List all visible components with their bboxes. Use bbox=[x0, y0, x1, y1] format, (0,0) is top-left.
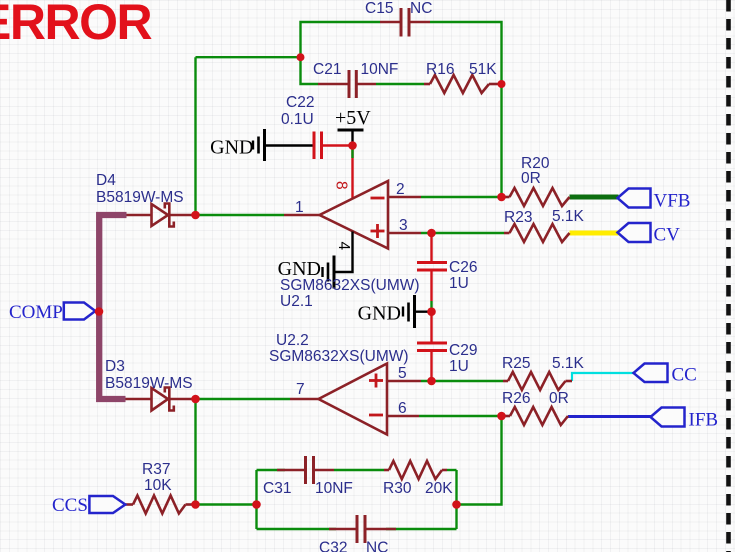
svg-text:0R: 0R bbox=[521, 170, 541, 187]
wire pin3 to R23 bbox=[421, 232, 504, 234]
port CV bbox=[618, 223, 651, 242]
capacitor C29 plates bbox=[417, 343, 447, 351]
port IFB bbox=[651, 408, 685, 427]
diode D3 bbox=[152, 388, 196, 411]
op-amp U2.1 minus mark bbox=[371, 197, 385, 200]
resistor R20 bbox=[502, 188, 570, 206]
svg-text:B5819W-MS: B5819W-MS bbox=[96, 189, 184, 206]
ground G3 mid bbox=[403, 295, 432, 328]
diode D4 anode lead bbox=[127, 214, 152, 217]
capacitor C22 bbox=[284, 132, 353, 160]
wire IFB blue bbox=[568, 415, 651, 418]
capacitor C26 plates bbox=[417, 263, 447, 271]
op-amp U2.2 minus mark bbox=[369, 414, 383, 417]
wire VFB thick green bbox=[570, 195, 619, 200]
svg-text:5: 5 bbox=[398, 365, 407, 382]
op-amp U2.1 pin4 ground lead bbox=[335, 232, 353, 273]
svg-text:CCS: CCS bbox=[52, 495, 88, 516]
diode D3 anode lead bbox=[126, 398, 152, 401]
wire D4 to op-amp pin1 bbox=[196, 214, 285, 216]
svg-text:1U: 1U bbox=[449, 275, 469, 292]
svg-text:5.1K: 5.1K bbox=[552, 208, 585, 225]
port CCS bbox=[89, 496, 125, 513]
wire pin5 row green bbox=[421, 380, 503, 382]
wire C21 row green bbox=[301, 57, 425, 84]
svg-text:3: 3 bbox=[399, 217, 408, 234]
svg-text:4: 4 bbox=[335, 242, 352, 251]
capacitor C29 leads red bbox=[430, 308, 432, 382]
svg-text:C26: C26 bbox=[449, 259, 477, 276]
svg-text:SGM8632XS(UMW): SGM8632XS(UMW) bbox=[280, 277, 420, 294]
resistor R30 bbox=[384, 461, 447, 479]
wire node A left branch bbox=[196, 56, 301, 58]
svg-text:IFB: IFB bbox=[689, 410, 719, 431]
svg-text:C29: C29 bbox=[449, 342, 477, 359]
resistor R26 bbox=[502, 407, 569, 425]
resistor R16 bbox=[424, 75, 502, 93]
svg-text:20K: 20K bbox=[425, 480, 453, 497]
ground G1 at C22 bbox=[253, 129, 284, 161]
svg-text:COMP: COMP bbox=[9, 302, 63, 323]
wire pin2 to node bbox=[421, 196, 502, 198]
port CC bbox=[634, 364, 668, 383]
svg-text:R23: R23 bbox=[504, 209, 532, 226]
svg-text:B5819W-MS: B5819W-MS bbox=[105, 375, 193, 392]
wire left vertical to D4 bbox=[194, 57, 196, 215]
svg-text:D4: D4 bbox=[96, 172, 116, 189]
svg-text:7: 7 bbox=[296, 381, 305, 398]
svg-text:51K: 51K bbox=[469, 61, 497, 78]
svg-text:U2.2: U2.2 bbox=[276, 332, 309, 349]
svg-text:CC: CC bbox=[672, 365, 697, 386]
resistor R23 bbox=[504, 224, 570, 242]
capacitor C15 bbox=[380, 8, 430, 37]
svg-text:VFB: VFB bbox=[654, 191, 691, 212]
diode D4 bbox=[152, 204, 196, 227]
wire pin8 supply red vertical bbox=[351, 146, 353, 199]
svg-text:U2.1: U2.1 bbox=[280, 293, 313, 310]
wire C31 loop right vertical bbox=[455, 470, 457, 529]
sheet border dashed bbox=[726, 0, 731, 552]
capacitor C32 bbox=[329, 515, 396, 543]
svg-text:SGM8632XS(UMW): SGM8632XS(UMW) bbox=[269, 348, 409, 365]
svg-text:10NF: 10NF bbox=[361, 61, 399, 78]
wire D3 to op-amp pin7 bbox=[196, 398, 291, 400]
op-amp U2.1 plus mark bbox=[371, 224, 385, 238]
wire C15 top loop green bbox=[301, 22, 502, 197]
wire CC cyan bbox=[572, 373, 634, 381]
wire C26 C29 node green stub bbox=[430, 301, 432, 308]
svg-text:10K: 10K bbox=[144, 477, 172, 494]
svg-text:8: 8 bbox=[333, 181, 350, 190]
svg-text:NC: NC bbox=[366, 540, 388, 552]
svg-text:C21: C21 bbox=[313, 61, 341, 78]
svg-text:R25: R25 bbox=[502, 355, 530, 372]
wire R37 node to C31 loop bbox=[196, 503, 257, 505]
svg-text:+5V: +5V bbox=[335, 107, 371, 129]
op-amp U2.2 plus mark bbox=[369, 374, 383, 388]
svg-text:R16: R16 bbox=[426, 61, 454, 78]
svg-text:5.1K: 5.1K bbox=[552, 355, 585, 372]
svg-text:C31: C31 bbox=[263, 480, 291, 497]
resistor R37 bbox=[126, 496, 196, 514]
svg-text:1: 1 bbox=[295, 199, 304, 216]
svg-text:0.1U: 0.1U bbox=[281, 111, 314, 128]
svg-text:10NF: 10NF bbox=[315, 480, 353, 497]
wire pin6 row green bbox=[419, 415, 502, 417]
svg-text:CV: CV bbox=[654, 225, 681, 246]
svg-text:2: 2 bbox=[396, 181, 405, 198]
svg-text:C22: C22 bbox=[286, 94, 314, 111]
svg-text:6: 6 bbox=[398, 400, 407, 417]
svg-text:D3: D3 bbox=[105, 358, 125, 375]
wire D3 node down to R37 node bbox=[194, 399, 196, 505]
power +5V bar bbox=[338, 130, 364, 142]
port COMP bbox=[64, 303, 96, 320]
capacitor C26 leads red bbox=[430, 233, 432, 301]
wire COMP thick plum bus bbox=[99, 215, 126, 399]
wire C31 upper branch green bbox=[257, 469, 457, 471]
capacitor C31 bbox=[277, 456, 334, 484]
svg-text:R30: R30 bbox=[383, 480, 412, 497]
svg-text:R26: R26 bbox=[502, 390, 530, 407]
svg-text:C32: C32 bbox=[319, 540, 347, 552]
wire +5V node green stub bbox=[351, 150, 353, 159]
svg-text:GND: GND bbox=[358, 303, 401, 325]
wire pin6 node down to C31 loop bbox=[457, 416, 502, 505]
svg-text:C15: C15 bbox=[365, 0, 393, 17]
svg-text:NC: NC bbox=[410, 0, 432, 17]
port VFB bbox=[618, 189, 651, 208]
resistor R25 bbox=[503, 372, 572, 390]
ground G2 at pin4 bbox=[323, 256, 335, 289]
svg-text:1U: 1U bbox=[449, 358, 469, 375]
svg-text:GND: GND bbox=[210, 137, 253, 159]
op-amp U2.2 bbox=[290, 364, 421, 435]
svg-text:0R: 0R bbox=[549, 390, 569, 407]
wire C32 lower branch green bbox=[257, 528, 457, 530]
wire CV yellow bbox=[570, 231, 619, 236]
svg-text:R37: R37 bbox=[142, 461, 170, 478]
svg-text:ERROR: ERROR bbox=[0, 0, 152, 50]
op-amp U2.1 bbox=[284, 181, 421, 249]
capacitor C21 bbox=[318, 70, 376, 98]
wire C31 loop left vertical bbox=[255, 470, 257, 529]
